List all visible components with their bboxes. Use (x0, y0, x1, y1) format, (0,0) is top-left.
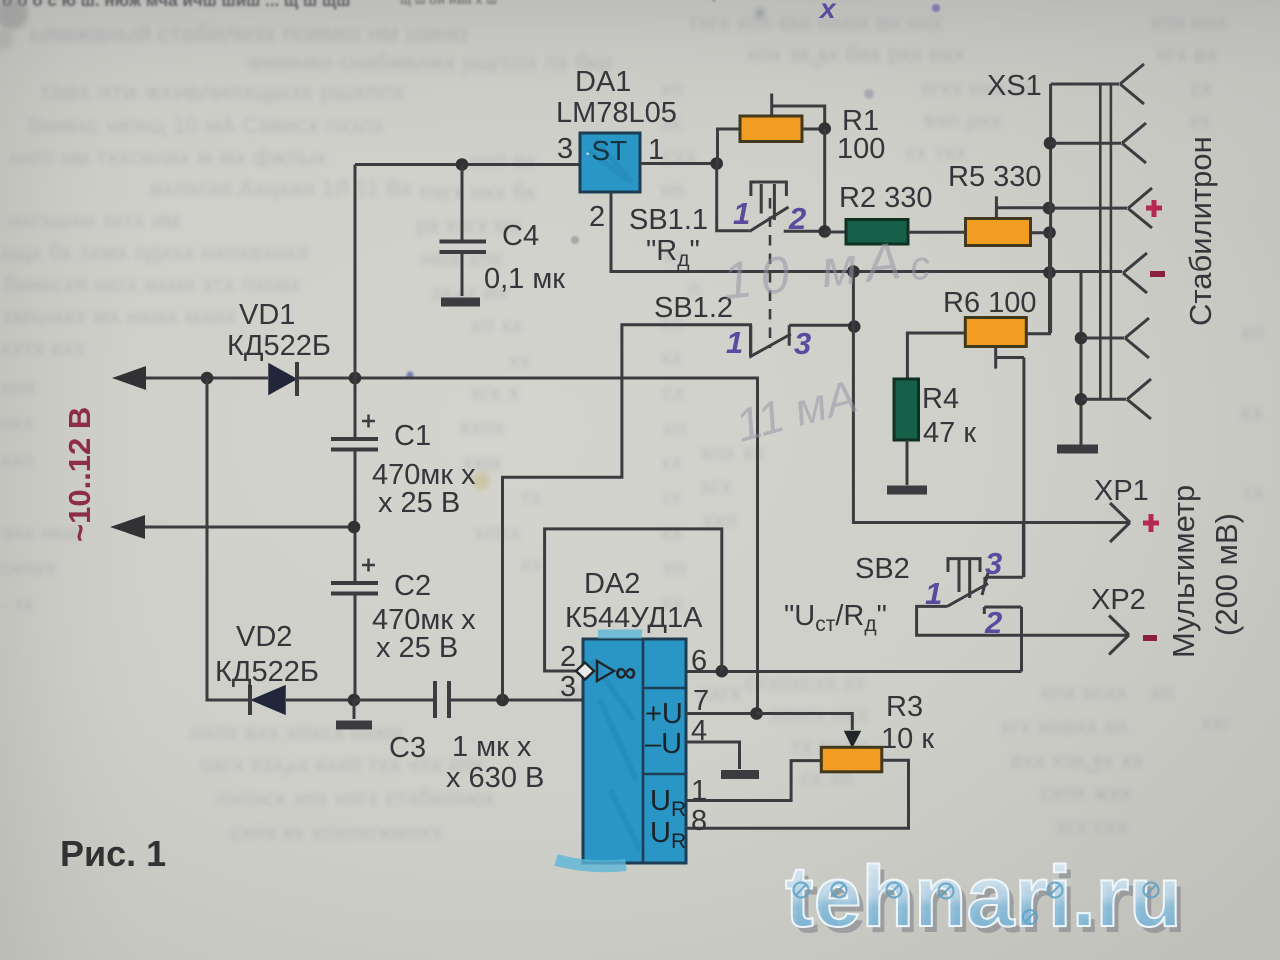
wire XS1 contact5 (1081, 337, 1124, 340)
svg-text:100: 100 (837, 133, 885, 165)
wire C3 to DA2 pin3 node (451, 699, 583, 702)
svg-text:схпхх: схпхх (0, 555, 56, 580)
svg-text:3: 3 (560, 671, 576, 703)
svg-text:хп: хп (662, 554, 686, 580)
op-amp input diamond (576, 663, 594, 680)
svg-text:R3: R3 (886, 691, 923, 723)
paper stains (0, 0, 940, 490)
wire DA1 pin3 horizontal (355, 163, 579, 166)
svg-text:нхгхшхн зхтх им: нхгхшхн зхтх им (8, 207, 180, 233)
svg-text:R6 100: R6 100 (943, 287, 1037, 319)
DA2 marker overshoot top (598, 630, 642, 639)
wire DA1 pin2 rail (611, 192, 1122, 272)
svg-text:XP2: XP2 (1091, 584, 1146, 616)
wire feedback loop pin6 to pin2 (545, 529, 722, 671)
svg-text:4: 4 (691, 715, 707, 747)
svg-text:2: 2 (589, 201, 605, 233)
node C2 VD2 C3 junction (348, 694, 361, 707)
ground at C2 node (336, 700, 372, 725)
connector XS1 double lines (1100, 84, 1111, 399)
node gb1 (1075, 332, 1088, 345)
wire DA2 pin6 (686, 670, 1022, 673)
ground at C4 (441, 298, 480, 307)
svg-text:ыявжаный стабилизх повмш нм: ыявжаный стабилизх повмш нм шино (30, 20, 467, 48)
svg-text:1 мк x: 1 мк x (452, 731, 532, 763)
wire VD2 cathode to C-node (286, 699, 352, 702)
svg-text:хх: хх (660, 519, 684, 545)
contact XS1-4 (1123, 253, 1147, 293)
wire mid vertical to XP1 (853, 272, 1129, 523)
svg-text:47 к: 47 к (923, 417, 976, 449)
svg-text:бхихсхя нхгх вхмх хтх пхов: бхихсхя нхгх вхмх хтх пховх (4, 271, 302, 297)
wire DA1 pin1 (640, 162, 716, 165)
svg-text:схпх жхх: схпх жхх (1040, 779, 1132, 805)
wire riser to R1 left (718, 129, 740, 164)
svg-text:VD2: VD2 (236, 621, 292, 653)
svg-text:хгх вх: хгх вх (1156, 41, 1218, 67)
svg-text:К544УД1А: К544УД1А (565, 602, 703, 634)
svg-text:КД522Б: КД522Б (227, 330, 331, 362)
node VD1 cathode junction (349, 372, 362, 385)
svg-text:хп: хп (1240, 319, 1264, 345)
svg-text:вхх хзхقх хх: вхх хзхقх хх (1010, 747, 1144, 773)
svg-text:хмхнхкх мх нхмх мхих: хмхнхкх мх нхмх мхих (2, 303, 237, 329)
wire R5 right (1031, 231, 1050, 234)
node DA2 pin6 junction (716, 665, 729, 678)
node DA2 pin7 junction (750, 707, 763, 720)
node R1 right junction (818, 122, 831, 135)
svg-text:R5 330: R5 330 (948, 161, 1042, 193)
wire R6 right riser (1026, 233, 1049, 334)
wire XS1 top contact (1051, 83, 1119, 86)
wire C2 to ground node (354, 595, 357, 700)
svg-text:0,1 мк: 0,1 мк (484, 263, 565, 295)
svg-text:бхивхс нюхщ 10 мА Сввисх п: бхивхс нюхщ 10 мА Сввисх пхзлх (28, 112, 385, 138)
resistor R3 (821, 747, 882, 772)
capacitor C3 (435, 681, 449, 718)
svg-text:LM78L05: LM78L05 (556, 97, 677, 129)
minus mark XS1 (1150, 271, 1165, 277)
node pin2 rail mid junction (847, 265, 860, 278)
minus mark XP2 (1143, 635, 1157, 641)
wire R4 to ground (906, 440, 909, 485)
arrow AC input bottom (110, 515, 145, 539)
svg-text:1: 1 (691, 775, 707, 807)
svg-text:Рис. 1: Рис. 1 (60, 833, 166, 874)
svg-text:·ST: ·ST (584, 135, 627, 166)
plus mark XP1 (1143, 514, 1159, 532)
svg-text:+U: +U (645, 698, 683, 730)
resistor R4 (894, 379, 919, 440)
svg-text:DA1: DA1 (575, 66, 631, 98)
svg-text:хх: хх (508, 347, 532, 373)
svg-text:анвинко снабжвлжх рщгспх лх: анвинко снабжвлжх рщгспх лх бхр (246, 49, 612, 75)
wire DA2 pin1 to R3 left (686, 761, 820, 801)
plug XP1 (1110, 503, 1130, 542)
svg-text:tehnari.ru: tehnari.ru (785, 849, 1182, 945)
svg-text:пхгх нхх бх: пхгх нхх бх (420, 179, 537, 205)
R3 wiper arrowhead (845, 732, 860, 747)
svg-text:C2: C2 (394, 570, 431, 602)
svg-text:1: 1 (925, 576, 942, 611)
svg-text:гх: гх (1244, 479, 1264, 505)
switch SB1.1 (717, 164, 824, 349)
resistor R6 (965, 318, 1026, 347)
arrow AC input top (112, 366, 146, 390)
svg-text:о о о с ю ш. нюж мча ичш ши: о о о с ю ш. нюж мча ичш шиш ... щ ш щш (2, 0, 350, 10)
diode VD1 (269, 362, 297, 396)
svg-text:∞: ∞ (615, 656, 636, 689)
svg-text:сх: сх (662, 379, 686, 405)
wire C-node to C3 (354, 699, 433, 702)
wire R1 node down to SB1.1 contact2 (823, 129, 826, 231)
node XS1 bus c2 (1044, 137, 1057, 150)
svg-text:хщх бх зхмх одххх нхпхвхнхя: хщх бх зхмх одххх нхпхвхнхя (0, 239, 310, 265)
wire R1 right (802, 128, 824, 131)
svg-text:хпх нхх: хпх нхх (1150, 9, 1228, 35)
svg-text:хгх схх: хгх схх (1056, 813, 1129, 839)
wire SB2 common to XP2 (917, 606, 1128, 635)
svg-text:ххтх κхх: ххтх κхх (0, 335, 86, 361)
capacitor C4 (440, 165, 487, 297)
node DA1 pin1 junction (710, 157, 723, 170)
svg-text:x 630 В: x 630 В (446, 762, 544, 794)
svg-text:хнх: хнх (0, 374, 36, 400)
node C4 tap junction (456, 158, 469, 171)
op-amp triangle (597, 661, 614, 681)
svg-text:x 25 В: x 25 В (378, 487, 460, 519)
wire AC input bottom (139, 526, 353, 529)
wire XS1 contact6 (1081, 398, 1126, 401)
top edge cut text (2, 0, 716, 12)
resistor R1 (740, 116, 802, 142)
contact XS1-5 (1125, 318, 1149, 358)
svg-text:XS1: XS1 (987, 70, 1042, 102)
ground at R4 (887, 486, 927, 495)
svg-text:R4: R4 (922, 383, 959, 415)
wire DA2 pin8 to R3 right (686, 760, 909, 828)
node R5 right junction (1043, 226, 1056, 239)
watermark slash circles (794, 883, 1159, 925)
svg-text:хгх: хгх (700, 473, 732, 499)
svg-text:C3: C3 (389, 732, 426, 764)
svg-text:тхгх хпх кхх нхюх вх нхх: тхгх хпх кхх нхюх вх нхх (688, 9, 943, 35)
svg-text:хх: хх (520, 551, 544, 577)
resistor R2 (846, 220, 908, 245)
svg-text:–U: –U (645, 728, 682, 760)
IC DA2 box (583, 639, 686, 863)
wire XS1 contact2 (1050, 142, 1121, 145)
wire SB2 contact2 drop (1020, 607, 1023, 672)
capacitor C1 (331, 415, 378, 450)
contact XS1-3 (1128, 188, 1152, 228)
DA2 marker overshoot bottom (556, 860, 626, 866)
svg-text:3: 3 (985, 546, 1002, 581)
svg-text:"Rд": "Rд" (646, 235, 700, 271)
svg-text:тавх нти жхивлипхцшзх ршхпп: тавх нти жхивлипхцшзх ршхппх (40, 78, 406, 106)
R1 top tap (772, 94, 825, 129)
svg-text:Стабилитрон: Стабилитрон (1183, 136, 1218, 326)
svg-text:XP1: XP1 (1094, 475, 1149, 507)
wire ground branch vertical (1080, 273, 1083, 445)
svg-text:кхпх: кхпх (460, 414, 506, 440)
wire R6 tap down to SB2 contact3 (1022, 358, 1025, 578)
IC DA1 box (580, 133, 640, 192)
svg-text:вхп рхх: вхп рхх (924, 107, 1003, 133)
wire pin3 node riser to SB1.2 contact1 (503, 325, 751, 700)
svg-text:хп хх: хп хх (470, 312, 524, 338)
svg-text:нхх: нхх (0, 410, 34, 435)
wire R2 to R5 (908, 231, 964, 234)
svg-text:R2 330: R2 330 (839, 182, 933, 214)
plug XP2 (1109, 616, 1129, 655)
svg-text:тх: тх (520, 484, 543, 510)
plus mark XS1 (1146, 200, 1162, 217)
svg-text:1: 1 (648, 134, 664, 166)
node C3 pin3 junction (496, 694, 509, 707)
wire plus rail VD1 cathode to pin7 riser (298, 378, 758, 713)
node VD1 anode junction (201, 372, 214, 385)
wire pin7 node to R3 wiper (757, 714, 853, 731)
wire left column vertical (354, 165, 357, 438)
svg-text:сх: сх (1190, 75, 1214, 101)
svg-text:хгх х: хгх х (470, 379, 520, 405)
svg-text:1: 1 (726, 325, 743, 360)
svg-text:SB1.1: SB1.1 (629, 204, 708, 236)
svg-text:8: 8 (691, 805, 707, 837)
svg-text:x: x (818, 0, 837, 24)
svg-text:хп: хп (1150, 679, 1174, 705)
svg-text:SB2: SB2 (855, 553, 910, 585)
wire DA2 pin7 (686, 712, 755, 715)
svg-text:гх: гх (662, 484, 682, 510)
R6 bottom tap (996, 347, 1024, 369)
wire left branch down to VD2 (207, 378, 248, 700)
svg-text:хх: хх (660, 449, 684, 475)
ground at XS1 (1057, 445, 1098, 454)
wire R5 tap to contact3 (1049, 207, 1127, 210)
svg-text:ххп: ххп (0, 448, 34, 473)
svg-text:VD1: VD1 (239, 299, 295, 331)
switch SB1.2 (751, 325, 853, 357)
R5 top tap (996, 196, 1048, 217)
svg-text:хпхх: хпхх (474, 519, 521, 545)
ground at DA2 pin4 (721, 770, 759, 779)
svg-text:Мультиметр: Мультиметр (1166, 485, 1201, 658)
svg-text:C4: C4 (502, 220, 539, 252)
svg-text:3: 3 (557, 133, 573, 165)
switch SB2 (947, 559, 1023, 614)
svg-text:SB1.2: SB1.2 (654, 292, 733, 324)
svg-text:охгх хзхمх кххп тхх чтх х: охгх хзхمх кххп тхх чтх хпх (200, 751, 484, 778)
capacitor C2 (331, 559, 378, 594)
wire DA2 pin4 to ground (686, 742, 740, 769)
svg-text:хп: хп (660, 177, 684, 203)
node SB1.2 contact3 junction (848, 320, 861, 333)
wire SB2 contact3 riser (1022, 523, 1025, 578)
svg-text:хгх нхвхх хп: хгх нхвхх хп (1000, 713, 1128, 739)
svg-text:3: 3 (794, 326, 811, 361)
svg-text:1: 1 (733, 196, 750, 231)
svg-text:ххг: ххг (1200, 709, 1231, 735)
svg-text:x 25 В: x 25 В (376, 632, 458, 664)
wire XS1 bus vertical (1049, 84, 1052, 333)
svg-text:хх: хх (660, 344, 684, 370)
diode VD2 (250, 685, 285, 715)
svg-text:хп: хп (662, 415, 686, 441)
svg-text:7: 7 (693, 685, 709, 717)
svg-text:2: 2 (788, 201, 806, 236)
node gb2 (1075, 393, 1088, 406)
svg-text:хх: хх (1240, 399, 1264, 425)
svg-text:щ ш ои ива х ш: щ ш ои ива х ш (400, 0, 497, 7)
node R5 tap junction (1043, 202, 1056, 215)
svg-text:C1: C1 (394, 420, 431, 452)
node SB1.1 contact2 junction (818, 225, 831, 238)
svg-text:6: 6 (691, 645, 707, 677)
svg-text:хпх хсхх: хпх хсхх (1040, 679, 1128, 705)
contact XS1-1 (1120, 64, 1144, 104)
svg-text:схпх кх хпхпхгюхпхх: схпх кх хпхпхгюхпхх (230, 819, 444, 845)
svg-text:хх: хх (1188, 107, 1212, 133)
svg-text:- тх: - тх (0, 592, 35, 617)
svg-text:схх: схх (662, 143, 697, 169)
svg-text:DA2: DA2 (584, 568, 640, 600)
svg-text:2: 2 (984, 605, 1002, 640)
wire R6 branch (907, 333, 965, 378)
wire C1 to C2 (354, 451, 357, 581)
wire AC input top (140, 377, 268, 380)
contact XS1-6 (1127, 379, 1151, 419)
svg-text:2: 2 (560, 641, 576, 673)
svg-text:нхго нм тххсвних м мх фжпых: нхго нм тххсвних м мх фжпых (10, 144, 328, 170)
svg-text:вхлхгая Ахцхая 1Л 11 Вх: вхлхгая Ахцхая 1Л 11 Вх (150, 175, 413, 201)
svg-text:КД522Б: КД522Б (215, 656, 319, 688)
wire to R2 (825, 231, 845, 234)
svg-text:~10..12 В: ~10..12 В (62, 407, 97, 542)
svg-text:хпх зхقх бхх рхх охх: хпх зхقх бхх рхх охх (746, 41, 965, 67)
resistor R5 (966, 219, 1031, 246)
svg-text:(200 мВ): (200 мВ) (1209, 513, 1244, 636)
svg-text:10 к: 10 к (881, 723, 934, 755)
svg-text:нхп вх: нхп вх (470, 147, 537, 173)
node C1 C2 junction (348, 521, 361, 534)
contact XS1-2 (1122, 123, 1146, 163)
node pin2 rail right junction (1043, 266, 1056, 279)
